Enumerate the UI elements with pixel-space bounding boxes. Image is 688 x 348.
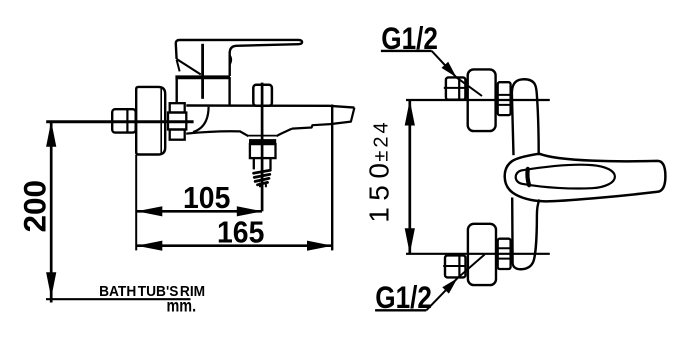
spout top line: [186, 106, 354, 108]
dimension 165 line: [137, 244, 332, 247]
dimension 105 right arrow: [237, 206, 262, 216]
spout tip outline: [292, 108, 354, 129]
bottom-right connection nut: [498, 239, 511, 269]
faucet body box (side view): [175, 77, 230, 106]
top extension line 150: [406, 99, 550, 101]
wall connection nut (right of escutcheon): [168, 103, 186, 140]
G1/2 top leader arrowhead: [442, 62, 457, 77]
aerator nut: [250, 144, 276, 158]
aerator threads: [254, 170, 271, 185]
bottom escutcheon: [468, 224, 496, 285]
dimension 105 line: [137, 210, 262, 213]
dimension 200 vertical line: [50, 122, 53, 303]
body + lever silhouette (front view): [505, 154, 666, 202]
hex nut left of escutcheon: [112, 109, 136, 132]
aerator tail stub: [260, 183, 266, 188]
dimension 150 top arrow: [405, 100, 415, 126]
body-to-spout arc: [193, 107, 209, 132]
top-right connection nut: [498, 82, 511, 115]
diverter knob: [253, 85, 272, 106]
extension line left (escutcheon back): [135, 155, 137, 250]
bottom supply tube: [512, 198, 539, 270]
spout underside right of aerator: [276, 129, 292, 137]
top-left hex nut: [444, 77, 466, 99]
dimension 200 bottom arrow: [46, 272, 56, 298]
handle indicator mark: [527, 169, 529, 185]
wall escutcheon (side view): [136, 87, 165, 155]
dimension 165 left arrow: [137, 241, 163, 251]
lever inner contour: [516, 165, 615, 189]
svg-text:200: 200: [17, 180, 53, 233]
dimension 105 left arrow: [137, 206, 163, 216]
extension line right (spout end): [331, 105, 333, 251]
bathtub rim line: [46, 298, 191, 300]
dimension 200 top arrow: [46, 121, 56, 147]
G1/2 bottom leader arrowhead: [442, 278, 457, 293]
spout underside left of aerator: [186, 131, 248, 136]
G1/2 bottom leader line: [426, 255, 484, 311]
bottom-left hex nut: [443, 255, 465, 277]
escutcheon inner edge line: [160, 89, 162, 154]
svg-text:mm.: mm.: [167, 296, 197, 316]
svg-text:165: 165: [217, 215, 264, 249]
diverter / aerator axis line: [261, 83, 264, 212]
aerator flare: [249, 135, 277, 137]
dimension 165 right arrow: [307, 241, 333, 251]
dimension 150 bottom arrow: [405, 228, 415, 254]
G1/2 top underline: [381, 50, 432, 52]
svg-text:105: 105: [183, 181, 230, 215]
top supply tube: [512, 79, 539, 155]
aerator neck: [254, 159, 271, 170]
G1/2 bottom underline: [375, 309, 426, 311]
top escutcheon: [468, 69, 496, 131]
handle lever (side view): [176, 40, 302, 76]
aerator black band: [249, 139, 276, 144]
cartridge axis line: [201, 44, 204, 99]
G1/2 top leader line: [432, 51, 482, 96]
connection centerline (thick): [46, 120, 193, 123]
dimension 150 vertical line: [408, 100, 411, 253]
bottom extension line 150: [406, 253, 550, 255]
